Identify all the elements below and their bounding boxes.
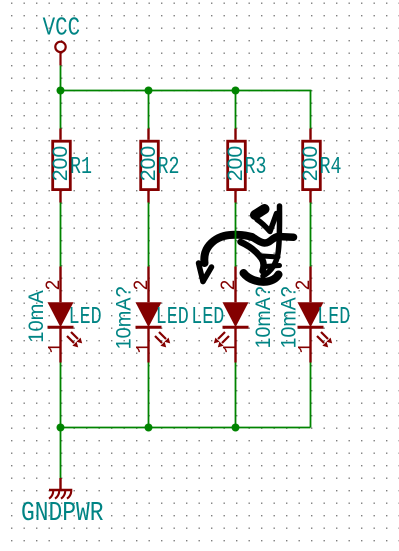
junction top bus col 3 xyxy=(232,87,240,95)
wire: VCC stem green xyxy=(60,65,62,90)
svg-text:R3: R3 xyxy=(245,154,267,181)
svg-text:2: 2 xyxy=(43,280,66,291)
LED D3 (mirrored) xyxy=(214,267,249,363)
svg-text:10mA?: 10mA? xyxy=(277,286,300,348)
wire: column 3 top xyxy=(235,91,237,129)
annotation: hand-drawn scribble (black ink) xyxy=(199,206,294,282)
svg-text:10mA?: 10mA? xyxy=(252,286,275,348)
wire: R3 to LED3 xyxy=(235,203,237,267)
svg-text:200: 200 xyxy=(137,146,160,182)
junction top bus col 2 xyxy=(145,87,153,95)
wire: LED4 to bottom bus xyxy=(310,363,312,428)
junction bottom bus col 3 xyxy=(232,424,240,432)
ground symbol GNDPWR xyxy=(49,478,72,499)
wire: LED3 to bottom bus xyxy=(235,363,237,428)
LED D1 xyxy=(48,267,83,363)
svg-text:200: 200 xyxy=(224,146,247,182)
LED D4 xyxy=(298,267,333,363)
svg-text:R1: R1 xyxy=(70,154,92,181)
power symbol VCC xyxy=(55,42,65,66)
svg-text:1: 1 xyxy=(221,343,244,354)
svg-text:10mA?: 10mA? xyxy=(113,286,136,349)
svg-text:200: 200 xyxy=(49,146,72,182)
wire: top bus from VCC column to R4 column xyxy=(61,91,311,129)
svg-text:GNDPWR: GNDPWR xyxy=(21,498,104,528)
wire: bottom bus xyxy=(61,427,311,429)
wire: LED1 to bottom bus xyxy=(60,363,62,428)
svg-text:R4: R4 xyxy=(320,154,342,181)
svg-text:R2: R2 xyxy=(158,154,180,181)
svg-text:2: 2 xyxy=(218,280,241,291)
junction bottom bus col 1 xyxy=(57,424,65,432)
svg-text:LED: LED xyxy=(156,304,189,331)
wire: R4 to LED4 xyxy=(310,203,312,267)
svg-text:200: 200 xyxy=(299,146,322,182)
wire: LED2 to bottom bus xyxy=(148,363,150,428)
svg-text:VCC: VCC xyxy=(43,13,81,42)
wire: ground stem xyxy=(60,428,62,479)
resistor R2 xyxy=(141,129,159,203)
wire: R2 to LED2 xyxy=(148,203,150,267)
svg-text:LED: LED xyxy=(317,304,350,331)
resistor R3 xyxy=(228,129,246,203)
wire: column 1 top xyxy=(60,91,62,129)
junction top bus col 1 xyxy=(57,87,65,95)
svg-text:1: 1 xyxy=(46,343,69,354)
wire: R1 to LED1 xyxy=(60,203,62,267)
resistor R4 xyxy=(303,129,321,203)
svg-text:1: 1 xyxy=(134,343,157,354)
svg-text:LED: LED xyxy=(191,304,224,331)
svg-text:LED: LED xyxy=(69,304,102,331)
junction bottom bus col 2 xyxy=(145,424,153,432)
resistor R1 xyxy=(53,129,71,203)
svg-text:10mA: 10mA xyxy=(25,290,48,343)
LED D2 xyxy=(136,267,171,363)
wire: column 2 top xyxy=(148,91,150,129)
